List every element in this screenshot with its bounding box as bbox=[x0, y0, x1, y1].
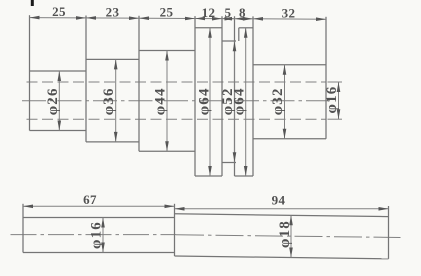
segment φ36 top edge bbox=[86, 58, 139, 60]
diameter dimension φ44 at x=167.0 bbox=[166, 51, 168, 152]
segment φ64 first bottom edge bbox=[195, 175, 222, 177]
svg-text:φ36: φ36 bbox=[101, 87, 117, 115]
lower shaft large step top edge bbox=[175, 214, 389, 217]
diameter dimension φ16 lower view bbox=[102, 218, 104, 253]
hidden line lower (bore) bbox=[27, 118, 327, 120]
svg-text:5: 5 bbox=[225, 5, 232, 20]
segment φ64 second bottom edge bbox=[235, 175, 254, 177]
arrow pair at x=195 bbox=[185, 17, 195, 21]
segment φ52 top edge bbox=[222, 40, 236, 42]
svg-text:φ44: φ44 bbox=[153, 87, 169, 115]
svg-text:φ16: φ16 bbox=[324, 86, 340, 114]
svg-text:25: 25 bbox=[160, 5, 174, 20]
diameter dimension φ64 at x=210.0 bbox=[209, 28, 211, 176]
segment φ44 top edge bbox=[139, 50, 195, 52]
segment φ44 bottom edge bbox=[139, 150, 195, 152]
svg-text:25: 25 bbox=[52, 4, 66, 19]
arrow right end of 32 bbox=[316, 17, 326, 21]
svg-text:8: 8 bbox=[239, 5, 246, 20]
diameter dimension φ26 at x=59.3 bbox=[58, 71, 60, 131]
segment φ64 first top edge bbox=[195, 27, 222, 29]
lower shaft step shoulder line bbox=[174, 204, 176, 256]
svg-text:67: 67 bbox=[83, 192, 97, 207]
phi16 extension line upper bbox=[328, 81, 343, 83]
arrow left end of 25 bbox=[30, 16, 40, 20]
svg-text:φ18: φ18 bbox=[277, 220, 293, 248]
phi16 extension line lower bbox=[328, 118, 343, 120]
centerline of lower shaft view left part bbox=[11, 234, 177, 236]
segment φ36 bottom edge bbox=[86, 141, 139, 143]
dimension line 67 bbox=[23, 205, 175, 207]
svg-text:φ26: φ26 bbox=[45, 87, 61, 115]
diameter dimension φ64 at x=245.7 bbox=[245, 28, 247, 176]
segment φ26 top edge bbox=[30, 70, 87, 72]
diameter dimension φ18 lower view bbox=[290, 215, 292, 257]
svg-text:φ32: φ32 bbox=[270, 87, 286, 115]
lower shaft left end line bbox=[22, 204, 24, 253]
svg-text:φ64: φ64 bbox=[197, 87, 213, 115]
segment φ64 second top edge bbox=[239, 27, 253, 29]
lower shaft large step bottom edge bbox=[175, 256, 389, 259]
diameter dimension φ52 at x=234.5 bbox=[234, 41, 236, 162]
diameter dimension φ32 at x=284.5 bbox=[284, 65, 286, 139]
boundary/extension line x=253 bbox=[252, 16, 254, 176]
lower shaft right end line bbox=[388, 206, 390, 259]
arrow pair at x=139 bbox=[129, 16, 139, 20]
lower shaft small step top edge bbox=[23, 217, 175, 219]
svg-text:φ64: φ64 bbox=[232, 87, 248, 115]
boundary/extension line x=326 bbox=[325, 17, 327, 139]
boundary/extension line x=195 bbox=[194, 16, 196, 176]
boundary/extension line x=29.5 bbox=[29, 15, 31, 130]
top dimension line bbox=[30, 18, 327, 20]
arrow pair at x=234.5 bbox=[225, 17, 235, 21]
arrow pair at x=253 bbox=[243, 17, 253, 21]
boundary/extension line x=86 bbox=[85, 16, 87, 142]
diameter dimension φ36 at x=115.7 bbox=[115, 59, 117, 141]
svg-text:23: 23 bbox=[106, 4, 120, 19]
svg-text:94: 94 bbox=[272, 193, 286, 208]
svg-text:12: 12 bbox=[202, 5, 216, 20]
top edge tick mark bbox=[31, 0, 34, 6]
segment φ32 bottom edge bbox=[253, 138, 326, 140]
boundary/extension line x=222 bbox=[221, 16, 223, 176]
centerline of upper shaft view bbox=[22, 100, 331, 102]
phi16 dimension line bbox=[338, 82, 340, 119]
segment φ26 bottom edge bbox=[30, 130, 87, 132]
lower shaft small step bottom edge bbox=[23, 252, 175, 254]
dimension line 94 bbox=[175, 208, 389, 210]
boundary/extension line x=234.5 bbox=[234, 16, 236, 176]
svg-text:32: 32 bbox=[282, 5, 296, 20]
hidden line upper (bore) bbox=[27, 81, 327, 83]
segment φ52 bottom edge bbox=[222, 162, 236, 164]
boundary/extension line x=139 bbox=[138, 16, 140, 151]
arrow pair at x=222 bbox=[212, 17, 222, 21]
step face phi52/phi64 upper bbox=[238, 28, 240, 41]
arrow pair at x=86 bbox=[76, 16, 86, 20]
segment φ32 top edge bbox=[253, 64, 326, 66]
centerline of lower shaft view right part bbox=[176, 235, 401, 238]
svg-text:φ16: φ16 bbox=[89, 221, 105, 249]
